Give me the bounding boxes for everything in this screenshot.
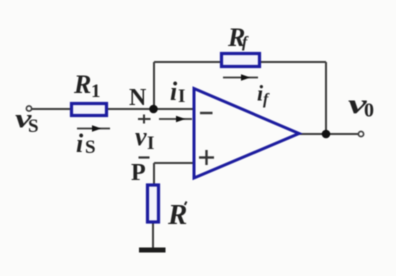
svg-text:f: f (242, 34, 249, 51)
svg-text:v: v (135, 122, 147, 151)
svg-text:i: i (76, 129, 84, 158)
svg-text:R: R (73, 70, 91, 99)
svg-text:I: I (178, 86, 185, 107)
svg-text:N: N (129, 85, 147, 111)
svg-text:S: S (28, 116, 39, 137)
svg-text:f: f (263, 91, 270, 108)
svg-text:P: P (131, 160, 146, 186)
svg-text:S: S (85, 137, 96, 158)
svg-text:i: i (170, 77, 178, 106)
svg-text:0: 0 (364, 100, 374, 122)
svg-text:I: I (147, 133, 154, 154)
svg-text:1: 1 (91, 81, 101, 102)
